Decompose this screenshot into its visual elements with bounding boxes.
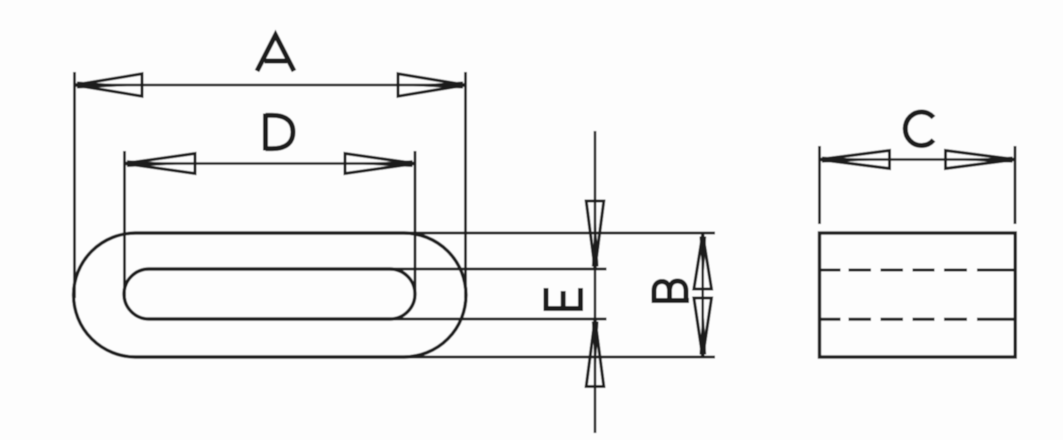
extension line D left [123, 151, 126, 298]
dimension line C [820, 158, 1016, 161]
label B (rotated) [652, 281, 689, 301]
arrowhead D left [125, 154, 196, 174]
arrowhead C left [820, 151, 890, 169]
arrowhead B upper [694, 234, 712, 289]
arrowhead B lower [694, 298, 712, 357]
extension line slot bottom tangent (to E dimension) [390, 318, 607, 321]
label E (rotated) [544, 288, 584, 309]
dimension line A [75, 84, 466, 87]
arrowhead A left [75, 74, 143, 96]
hidden line lower (dashed) [820, 318, 1016, 321]
arrowhead E lower [586, 319, 604, 387]
hidden line upper (dashed) [820, 269, 1016, 272]
dimension line D [125, 162, 416, 165]
outer body outline (plan view stadium) [74, 233, 466, 357]
extension line D right [414, 151, 417, 298]
extension line C left [818, 146, 821, 224]
extension line A right [464, 72, 467, 298]
inner slot outline [124, 269, 415, 319]
arrowhead E upper [586, 201, 604, 269]
label D [266, 114, 294, 151]
label C [905, 112, 933, 146]
extension line C right [1014, 146, 1017, 224]
arrowhead A right [398, 74, 466, 96]
extension line top tangent (to B dimension) [404, 232, 715, 235]
dimension line B [701, 234, 704, 357]
arrowhead C right [946, 151, 1016, 169]
extension line A left [73, 72, 76, 298]
extension line bottom tangent (to B dimension) [404, 356, 715, 359]
extension line slot top tangent (to E dimension) [390, 268, 607, 271]
arrowhead D right [345, 154, 415, 174]
dimension line E (vertical centerline) [594, 131, 597, 433]
label A [257, 35, 294, 71]
side view rectangle [820, 233, 1016, 357]
